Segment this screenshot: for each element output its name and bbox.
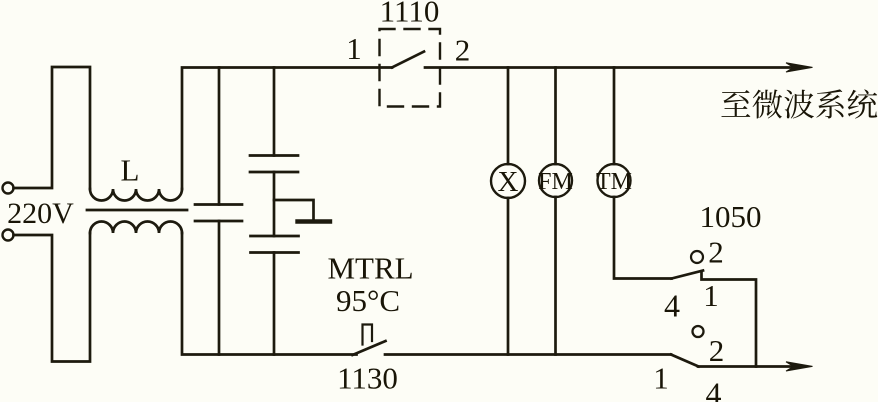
arrow (to microwave system, bottom) xyxy=(786,362,813,371)
wire (bottom bus: 1130 to switch 1050 lower pole) xyxy=(385,353,671,356)
svg-text:X: X xyxy=(498,166,519,198)
ground xyxy=(298,219,331,223)
wire (capacitor C3 bottom lead) xyxy=(273,253,276,355)
svg-text:2: 2 xyxy=(708,235,724,270)
choke core xyxy=(87,209,187,212)
svg-text:4: 4 xyxy=(706,376,722,402)
svg-text:95°C: 95°C xyxy=(336,283,400,318)
svg-text:220V: 220V xyxy=(7,197,74,230)
thermal switch 1130 actuator xyxy=(363,325,373,345)
svg-text:2: 2 xyxy=(455,33,471,68)
svg-text:TM: TM xyxy=(596,169,632,195)
capacitor C2 xyxy=(250,156,298,173)
wire (bottom input to choke) xyxy=(14,233,91,362)
svg-text:1130: 1130 xyxy=(337,361,398,396)
meter TM xyxy=(598,164,631,197)
inductor L bottom winding xyxy=(90,222,182,234)
svg-text:FM: FM xyxy=(538,169,573,195)
switch 1050 upper contact 2 xyxy=(691,251,703,263)
inductor L top winding xyxy=(90,189,182,201)
svg-text:1110: 1110 xyxy=(380,0,440,29)
switch 1050 lower contact 2 xyxy=(693,326,704,337)
switch 1050 upper blade xyxy=(672,271,704,279)
svg-text:4: 4 xyxy=(664,288,680,324)
meter X xyxy=(491,164,525,198)
wire (meter FM bottom lead) xyxy=(554,197,557,355)
wire (capacitor C1 top lead) xyxy=(218,68,221,205)
svg-text:MTRL: MTRL xyxy=(327,251,413,286)
svg-text:1: 1 xyxy=(653,361,669,396)
svg-text:1: 1 xyxy=(703,278,719,313)
wire (meter TM to switch 1050 upper pole) xyxy=(614,197,672,279)
wire (capacitor C1 bottom lead) xyxy=(218,221,221,355)
wire (top bus right: switch pin 2 to arrow) xyxy=(425,66,794,69)
switch 1110 blade xyxy=(392,52,424,68)
wire (capacitor C2 top lead) xyxy=(273,68,276,156)
terminal J1 (220V top) xyxy=(3,183,14,194)
meter FM xyxy=(539,164,572,197)
wire (meter TM top lead) xyxy=(613,68,616,165)
svg-text:L: L xyxy=(121,153,140,188)
switch 1110 enclosure (dashed) xyxy=(380,29,441,107)
wire (meter FM top lead) xyxy=(554,68,557,165)
wire (meter X top lead) xyxy=(507,68,510,165)
terminal J2 (220V bottom) xyxy=(3,230,14,241)
wire (switch 1050 upper pin 1 to lower output) xyxy=(702,273,757,367)
wire (ground tap) xyxy=(274,200,314,220)
switch 1130 blade xyxy=(353,341,386,355)
wire (top input to choke) xyxy=(14,67,91,189)
wire (top bus left: winding to switch 1110 pin 1) xyxy=(182,68,392,190)
label 至微波系统 (to microwave system) xyxy=(721,89,877,118)
switch 1050 lower blade xyxy=(671,355,699,367)
wire (lower output to arrow) xyxy=(698,365,794,368)
arrow (to microwave system, top) xyxy=(786,63,813,72)
svg-text:2: 2 xyxy=(709,333,725,368)
capacitor C1 xyxy=(195,205,242,222)
wire (bottom bus left: winding to thermal switch 1130) xyxy=(182,233,357,355)
wire (meter X bottom lead) xyxy=(507,198,510,355)
capacitor C3 xyxy=(251,236,299,253)
svg-text:1: 1 xyxy=(346,31,362,66)
wire (C2 to C3) xyxy=(273,172,276,236)
svg-text:1050: 1050 xyxy=(700,199,762,234)
